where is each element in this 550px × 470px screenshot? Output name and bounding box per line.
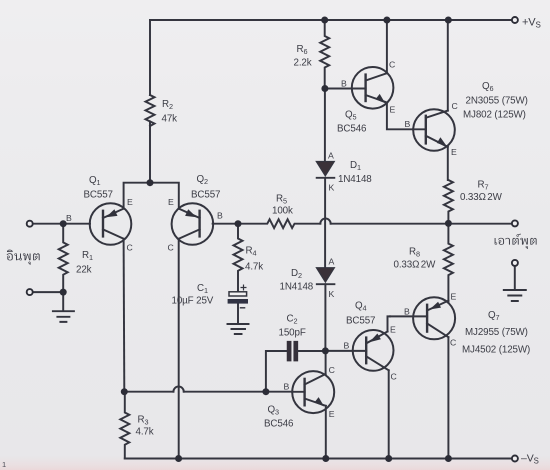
- svg-text:E: E: [127, 197, 133, 207]
- wire input to Q1 base: [33, 223, 91, 225]
- wire Q2 base to node: [213, 223, 238, 225]
- terminal input bottom: [27, 289, 33, 295]
- svg-text:BC557: BC557: [346, 316, 375, 327]
- svg-text:MJ802 (125W): MJ802 (125W): [463, 110, 526, 121]
- svg-text:C: C: [329, 365, 335, 375]
- diode D1: [316, 162, 334, 176]
- arrow Q3 emitter NPN: [314, 397, 324, 406]
- terminal output ground: [512, 260, 518, 266]
- svg-text:150pF: 150pF: [279, 328, 306, 339]
- node C2 tap: [262, 388, 269, 395]
- ground input: [53, 292, 74, 322]
- svg-text:B: B: [405, 119, 411, 129]
- diode D2: [316, 268, 334, 282]
- terminal input top: [27, 221, 33, 227]
- transistor Q7: [413, 297, 455, 339]
- svg-text:B: B: [341, 79, 347, 89]
- node Q1 collector R3: [121, 388, 128, 395]
- capacitor C2: [289, 343, 296, 359]
- svg-text:MJ4502 (125W): MJ4502 (125W): [462, 345, 530, 356]
- transistor Q5: [352, 67, 394, 109]
- transistor Q6: [413, 109, 455, 151]
- wire Q7 collector down: [447, 337, 449, 458]
- svg-text:B: B: [217, 211, 223, 221]
- svg-text:BC557: BC557: [84, 190, 113, 201]
- resistor R1: [59, 224, 68, 292]
- wire Q6 collector up: [447, 20, 449, 111]
- svg-text:BC546: BC546: [264, 419, 294, 430]
- resistor R4: [234, 224, 243, 292]
- svg-text:C: C: [452, 101, 458, 111]
- wire Q4 emitter up to Q7 base: [388, 316, 391, 331]
- svg-text:B: B: [404, 307, 410, 317]
- transistor Q3: [292, 371, 334, 413]
- svg-text:B: B: [344, 341, 350, 351]
- wire output line: [331, 223, 512, 225]
- node top rail R6: [321, 17, 328, 24]
- wire -Vs bottom rail: [125, 458, 512, 460]
- wire +Vs top rail: [150, 19, 512, 21]
- node Q2 base R4: [235, 220, 242, 227]
- node Q5 base: [321, 85, 328, 92]
- svg-text:1N4148: 1N4148: [280, 282, 314, 293]
- transistor Q1: [90, 203, 132, 245]
- svg-text:E: E: [451, 292, 457, 302]
- resistor R5: [238, 219, 320, 228]
- node rail Q4 collector: [385, 455, 392, 462]
- wire Q1 collector down to Q3 base node: [123, 239, 126, 392]
- node R2 emitters: [147, 179, 154, 186]
- arrow Q4 emitter PNP: [369, 334, 381, 343]
- svg-text:4.7k: 4.7k: [245, 262, 263, 273]
- svg-text:C: C: [127, 243, 133, 253]
- svg-text:1N4148: 1N4148: [338, 174, 372, 185]
- svg-text:C: C: [389, 60, 395, 70]
- node input top: [60, 220, 67, 227]
- resistor R3: [120, 392, 129, 459]
- label output thai: [495, 234, 537, 249]
- svg-text:K: K: [329, 289, 335, 299]
- wire D1 column: [324, 89, 327, 351]
- svg-text:22k: 22k: [76, 265, 92, 276]
- svg-text:C: C: [391, 372, 397, 382]
- svg-text:2.2k: 2.2k: [294, 58, 312, 69]
- terminal output: [512, 220, 518, 226]
- resistor R6: [320, 20, 329, 89]
- node rail Q7 collector: [445, 455, 452, 462]
- wire Q4 collector down: [388, 370, 390, 458]
- C1 minus sign: [240, 307, 246, 309]
- wire Q2 collector down to -Vs: [178, 239, 180, 459]
- wire emitter bridge Q1 Q2: [124, 183, 179, 209]
- wire input lower: [33, 291, 64, 293]
- svg-text:K: K: [329, 183, 335, 193]
- arrows: [106, 94, 447, 407]
- svg-text:C: C: [168, 243, 174, 253]
- node rail Q2 collector: [175, 455, 182, 462]
- svg-text:100k: 100k: [272, 206, 293, 217]
- svg-text:47k: 47k: [162, 114, 178, 125]
- transistor Q4: [353, 330, 394, 371]
- svg-text:4.7k: 4.7k: [136, 427, 154, 438]
- svg-text:B: B: [284, 382, 290, 392]
- capacitor C1 electrolytic: [229, 292, 247, 296]
- capacitor C1 negative plate: [228, 299, 248, 304]
- wire Q6 emitter to R7: [447, 147, 449, 180]
- arrow Q7 emitter PNP: [430, 302, 441, 310]
- arrow Q6 emitter NPN: [437, 137, 447, 146]
- arrow Q5 emitter NPN: [376, 94, 386, 103]
- svg-text:A: A: [328, 151, 334, 161]
- ground output: [504, 266, 526, 301]
- svg-text:E: E: [451, 147, 457, 157]
- svg-text:B: B: [66, 213, 72, 223]
- C1 plus sign: [241, 285, 247, 291]
- arrow Q1 emitter PNP: [106, 209, 118, 217]
- wire Q3 base line with hop: [124, 391, 173, 393]
- node output: [445, 220, 452, 227]
- terminal +Vs: [512, 17, 518, 23]
- label input thai: [7, 234, 537, 265]
- svg-text:10µF 25V: 10µF 25V: [172, 296, 214, 307]
- svg-text:BC546: BC546: [337, 124, 367, 135]
- svg-text:E: E: [329, 409, 335, 419]
- resistor R8: [444, 223, 453, 301]
- wire Q3 emitter down: [325, 406, 327, 459]
- node rail Q3 emitter: [322, 455, 329, 462]
- svg-text:BC557: BC557: [191, 190, 220, 201]
- wire Q5 collector up: [386, 20, 388, 73]
- node D2 K Q4 base: [322, 347, 329, 354]
- node input bottom: [60, 289, 67, 296]
- arrow Q2 emitter PNP: [185, 209, 197, 217]
- svg-text:E: E: [390, 325, 396, 335]
- node top rail Q5 collector: [383, 17, 390, 24]
- node top rail Q6 collector: [445, 17, 452, 24]
- svg-text:0.33Ω2W: 0.33Ω2W: [394, 260, 437, 271]
- wire Q5 emitter to Q6 base: [387, 103, 413, 130]
- svg-text:E: E: [390, 105, 396, 115]
- svg-text:2N3055 (75W): 2N3055 (75W): [466, 96, 528, 107]
- wire Q3 collector up to node: [325, 351, 327, 374]
- resistor R7: [444, 180, 453, 223]
- transistor Q2: [172, 203, 214, 245]
- wire hop over diode column: [320, 218, 330, 223]
- svg-text:C: C: [450, 338, 456, 348]
- svg-text:MJ2955 (75W): MJ2955 (75W): [465, 327, 528, 338]
- svg-text:E: E: [168, 197, 174, 207]
- svg-text:A: A: [329, 257, 335, 267]
- resistor R2: [146, 95, 155, 126]
- svg-text:1: 1: [2, 460, 6, 469]
- wire C2 branch: [266, 351, 287, 392]
- svg-text:0.33Ω2W: 0.33Ω2W: [460, 192, 503, 203]
- wire R2 column: [149, 20, 151, 183]
- terminal -Vs: [512, 456, 518, 462]
